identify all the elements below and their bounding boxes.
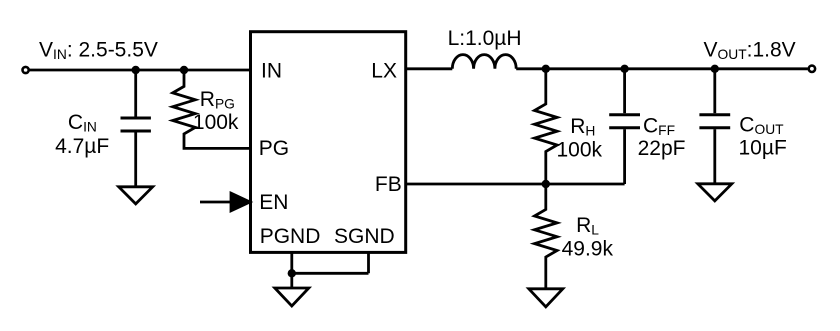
svg-text:PGND: PGND <box>260 225 321 248</box>
svg-text:PG: PG <box>259 137 289 160</box>
svg-text:L:1.0µH: L:1.0µH <box>448 27 522 50</box>
svg-text:49.9k: 49.9k <box>562 238 614 261</box>
svg-text:EN: EN <box>259 191 288 214</box>
svg-text:22pF: 22pF <box>638 137 686 160</box>
svg-text:IN: IN <box>261 60 282 83</box>
svg-text:100k: 100k <box>193 111 239 134</box>
svg-text:VOUT:1.8V: VOUT:1.8V <box>704 39 796 62</box>
svg-text:10µF: 10µF <box>739 137 787 160</box>
svg-text:100k: 100k <box>557 139 603 162</box>
svg-text:4.7µF: 4.7µF <box>55 135 109 158</box>
svg-text:FB: FB <box>375 173 402 196</box>
svg-text:SGND: SGND <box>334 225 395 248</box>
svg-text:LX: LX <box>371 60 397 83</box>
